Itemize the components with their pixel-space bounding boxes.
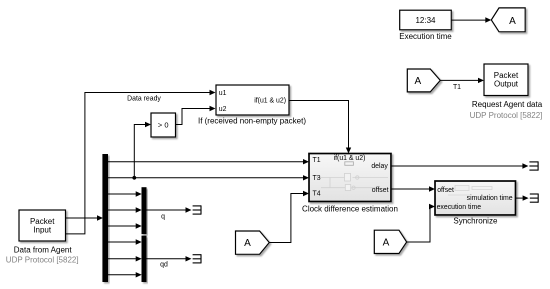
svg-text:if(u1 & u2): if(u1 & u2) (334, 155, 366, 162)
svg-text:A: A (509, 16, 516, 27)
wire Packet Input out2 Data ready up to If u1 (66, 93, 210, 234)
svg-text:A: A (244, 238, 251, 249)
svg-text:Clock difference estimation: Clock difference estimation (302, 204, 398, 213)
Packet Output block (484, 64, 528, 96)
If block (216, 85, 289, 115)
svg-text:Synchronize: Synchronize (453, 217, 498, 226)
wire If output to action port of Clock difference estimation (289, 101, 349, 148)
svg-text:If (received non-empty packet): If (received non-empty packet) (198, 116, 306, 125)
wire From A to Packet Output, label T1 (440, 79, 478, 81)
svg-text:Data from Agent: Data from Agent (14, 245, 73, 254)
svg-text:UDP Protocol [5822]: UDP Protocol [5822] (6, 255, 79, 264)
wire From A to execution time input (407, 207, 430, 243)
Clock difference estimation block (309, 154, 391, 202)
svg-text:A: A (414, 76, 421, 87)
demux bar (102, 154, 108, 282)
svg-text:Data ready: Data ready (127, 95, 161, 102)
wire simulation time to terminator (516, 197, 523, 199)
wire junction up to compare input (134, 125, 145, 178)
From tag A (bottom middle) (374, 230, 406, 253)
svg-text:Request Agent data: Request Agent data (472, 100, 543, 109)
wire demux out2 to T3 (108, 177, 303, 179)
wire mux1 out q to terminator (146, 209, 185, 211)
terminator icon q (193, 205, 201, 214)
wire Packet Input out1 to demux (66, 217, 98, 219)
wire compare out to If u2 (176, 109, 210, 125)
svg-text:offset: offset (437, 187, 454, 194)
terminator icon qd (193, 254, 201, 263)
watermark preview (448, 186, 492, 196)
mux2 bar (142, 236, 147, 282)
Synchronize block (435, 181, 516, 215)
svg-text:if(u1 & u2): if(u1 & u2) (254, 98, 286, 105)
svg-text:UDP Protocol [5822]: UDP Protocol [5822] (470, 111, 543, 120)
svg-text:offset: offset (372, 187, 389, 194)
wire From A to T4 (269, 194, 303, 243)
svg-text:delay: delay (371, 163, 388, 170)
svg-text:u1: u1 (219, 90, 227, 97)
wires demux out6-8 to mux2 (108, 241, 136, 243)
watermark preview (316, 173, 388, 190)
svg-text:12:34: 12:34 (415, 16, 436, 25)
wire demux out1 to T1 (108, 161, 303, 163)
svg-text:qd: qd (160, 262, 168, 269)
svg-text:simulation time: simulation time (467, 195, 513, 202)
svg-text:Execution time: Execution time (399, 32, 452, 41)
svg-text:T4: T4 (313, 191, 321, 198)
wire mux2 out qd to terminator (146, 258, 185, 260)
svg-text:execution time: execution time (437, 204, 482, 211)
svg-text:T3: T3 (313, 175, 321, 182)
wire clock to Goto A (451, 19, 485, 21)
junction on T3 wire (132, 176, 136, 180)
digital clock block 12:34 (400, 10, 452, 30)
svg-text:T1: T1 (453, 84, 461, 91)
svg-text:Input: Input (33, 225, 52, 234)
wire delay to terminator (391, 165, 523, 167)
svg-text:A: A (383, 238, 390, 249)
From tag A (bottom left) (236, 231, 270, 254)
svg-text:u2: u2 (219, 106, 227, 113)
wire offset to Synchronize (391, 188, 429, 190)
wires demux out3-5 to mux1 (108, 193, 136, 195)
mux1 bar (142, 187, 147, 234)
svg-text:T1: T1 (313, 157, 321, 164)
terminator icon simulation time (530, 194, 538, 203)
svg-text:> 0: > 0 (158, 121, 169, 130)
terminator icon delay (529, 161, 538, 170)
Goto tag A (491, 8, 525, 32)
compare block > 0 (151, 113, 176, 137)
Packet Input block (19, 210, 66, 241)
svg-text:Output: Output (494, 79, 519, 88)
svg-text:q: q (161, 213, 165, 220)
From tag A (top right) (407, 69, 440, 92)
